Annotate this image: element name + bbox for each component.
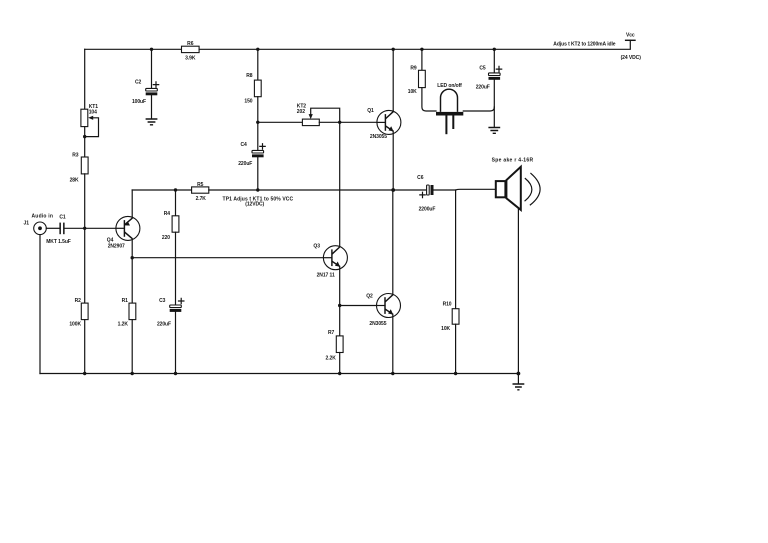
capacitor C4 bbox=[238, 142, 265, 167]
ground under C5 bbox=[488, 128, 500, 134]
wire C1 to Q4 base bbox=[65, 227, 125, 229]
svg-text:Q1: Q1 bbox=[367, 108, 374, 114]
wire R1 to rail bbox=[131, 320, 133, 374]
wire Q2 emitter drop bbox=[392, 314, 394, 373]
svg-text:104: 104 bbox=[89, 109, 97, 115]
transistor Q4 bbox=[107, 216, 140, 249]
svg-text:Q2: Q2 bbox=[366, 293, 373, 299]
svg-text:220uF: 220uF bbox=[238, 161, 252, 167]
svg-text:C3: C3 bbox=[159, 298, 166, 304]
wire Q4 emitter riser bbox=[131, 190, 133, 218]
resistor R9 bbox=[408, 65, 426, 95]
transistor Q2 bbox=[366, 293, 400, 327]
svg-text:2200uF: 2200uF bbox=[419, 206, 436, 212]
connector J1 audio in bbox=[24, 214, 54, 235]
wire left rail bottom bbox=[84, 320, 86, 374]
node Q1 collector junction bbox=[392, 48, 395, 51]
node rail C3 bbox=[174, 372, 177, 375]
wire C3 to rail bbox=[175, 312, 177, 374]
wire R10 to rail bbox=[455, 324, 457, 373]
svg-text:10K: 10K bbox=[441, 326, 450, 332]
resistor R5 bbox=[192, 182, 209, 202]
resistor R7 bbox=[326, 330, 344, 362]
node C2 top junction bbox=[150, 48, 153, 51]
capacitor C2 bbox=[132, 79, 159, 104]
svg-text:R10: R10 bbox=[443, 302, 452, 308]
svg-text:R8: R8 bbox=[246, 73, 253, 79]
resistor R3 bbox=[70, 153, 89, 184]
capacitor C3 bbox=[157, 298, 184, 327]
node R9 top junction bbox=[420, 48, 423, 51]
svg-text:R1: R1 bbox=[122, 298, 129, 304]
node rail R1 bbox=[131, 372, 134, 375]
node R8 C4 KT2 junction bbox=[256, 121, 259, 124]
svg-text:202: 202 bbox=[297, 109, 305, 115]
svg-text:2N3055: 2N3055 bbox=[369, 321, 386, 327]
svg-text:R5: R5 bbox=[197, 182, 204, 188]
svg-text:Spe ake r 4-16R: Spe ake r 4-16R bbox=[492, 158, 534, 164]
resistor R6 bbox=[182, 41, 200, 61]
svg-text:C2: C2 bbox=[135, 79, 142, 85]
wire output line y190 bbox=[132, 189, 191, 191]
wire speaker return bbox=[517, 209, 519, 373]
wire R7 to rail bbox=[339, 353, 341, 374]
wire Q4 to Q3 base bbox=[132, 257, 332, 259]
wire R9 to LED bbox=[422, 88, 436, 111]
resistor R1 bbox=[118, 298, 136, 327]
svg-text:2N2907: 2N2907 bbox=[108, 244, 125, 250]
node Q3 emitter junction bbox=[338, 304, 341, 307]
svg-text:Vcc: Vcc bbox=[626, 32, 635, 38]
trimpot KT2 bbox=[297, 104, 340, 126]
capacitor C5 bbox=[476, 65, 502, 90]
capacitor C6 bbox=[417, 175, 435, 213]
svg-text:220uF: 220uF bbox=[476, 85, 490, 91]
wire R8 branch bbox=[257, 49, 259, 80]
LED on/off bbox=[436, 83, 463, 134]
speaker SP1 bbox=[492, 158, 540, 210]
svg-text:1.2K: 1.2K bbox=[118, 321, 129, 327]
wire C4 to output line bbox=[257, 157, 259, 190]
svg-text:2.2K: 2.2K bbox=[326, 356, 337, 362]
svg-text:Q4: Q4 bbox=[107, 237, 114, 243]
Vcc power symbol bbox=[621, 32, 642, 61]
svg-text:(24 VDC): (24 VDC) bbox=[621, 55, 642, 61]
svg-text:Audio in: Audio in bbox=[32, 214, 54, 220]
svg-text:R6: R6 bbox=[187, 41, 194, 47]
wire J1 ground drop bbox=[39, 235, 41, 374]
node output junction bbox=[391, 188, 395, 192]
svg-text:R4: R4 bbox=[164, 211, 171, 217]
wire J1 to C1 bbox=[46, 227, 59, 229]
resistor R4 bbox=[162, 211, 179, 241]
svg-text:(12VDC): (12VDC) bbox=[245, 202, 264, 208]
svg-text:10K: 10K bbox=[408, 89, 417, 95]
svg-text:100K: 100K bbox=[69, 321, 81, 327]
wire KT2 to Q1 base bbox=[319, 121, 385, 123]
wire top rail left segment bbox=[85, 48, 182, 50]
wire mid bias line bbox=[258, 121, 303, 123]
svg-text:J1: J1 bbox=[24, 220, 30, 226]
wire bottom rail bbox=[40, 373, 518, 375]
ground main bbox=[513, 384, 525, 390]
ground under C2 bbox=[146, 119, 158, 125]
wire top rail right segment bbox=[199, 40, 630, 49]
node Q4 collector junction bbox=[131, 256, 134, 259]
wire Q1 collector bbox=[392, 49, 394, 111]
wire R4 branch bbox=[175, 190, 177, 216]
svg-text:2N3055: 2N3055 bbox=[370, 134, 387, 140]
wire C5 to ground bbox=[493, 80, 495, 128]
wire C5 branch bbox=[493, 49, 495, 73]
svg-text:C6: C6 bbox=[417, 175, 424, 181]
node C4 bottom junction bbox=[256, 188, 259, 191]
wire Q2 collector riser bbox=[392, 190, 394, 295]
wire Q3 collector riser bbox=[339, 122, 341, 246]
wire LED to ground column bbox=[463, 107, 494, 111]
node rail R7 bbox=[338, 372, 341, 375]
svg-text:R3: R3 bbox=[72, 153, 79, 159]
svg-text:R7: R7 bbox=[328, 330, 335, 336]
wire C2 to ground bbox=[151, 95, 153, 118]
wire node to R1 bbox=[131, 258, 133, 303]
resistor R2 bbox=[69, 298, 88, 327]
wire left rail top bbox=[84, 49, 86, 109]
wire C2 branch bbox=[151, 49, 153, 88]
wire C6 to speaker bbox=[434, 188, 495, 191]
wire R4 to C3 bbox=[175, 232, 177, 305]
annotation TP1 bbox=[223, 196, 294, 207]
wire R9 branch bbox=[421, 49, 423, 70]
wire R8 to mid node bbox=[257, 97, 259, 123]
node KT1 wiper junction bbox=[83, 135, 86, 138]
node rail R10 bbox=[454, 372, 457, 375]
wire output line to C6 bbox=[209, 189, 427, 191]
node R8 top junction bbox=[256, 48, 259, 51]
svg-text:C5: C5 bbox=[479, 65, 486, 71]
transistor Q1 bbox=[367, 108, 401, 140]
node rail ground bbox=[517, 372, 521, 376]
wire R10 drop bbox=[455, 190, 457, 309]
node input junction bbox=[83, 227, 86, 230]
svg-text:R2: R2 bbox=[75, 298, 82, 304]
svg-text:C1: C1 bbox=[59, 215, 66, 221]
capacitor C1 bbox=[46, 215, 71, 245]
svg-text:3.9K: 3.9K bbox=[185, 56, 196, 62]
wire node to R7 bbox=[339, 306, 341, 336]
svg-text:2.7K: 2.7K bbox=[196, 196, 207, 202]
wire left rail mid1 bbox=[84, 127, 86, 157]
wire Q3 emitter drop bbox=[339, 266, 341, 305]
svg-text:Adjus t KT2 to 1200mA idle: Adjus t KT2 to 1200mA idle bbox=[553, 41, 615, 47]
node C5 top junction bbox=[493, 48, 496, 51]
svg-text:LED on/off: LED on/off bbox=[437, 83, 462, 89]
node R4 junction bbox=[174, 188, 177, 191]
transistor Q3 bbox=[313, 244, 347, 279]
node rail Q2 bbox=[391, 372, 394, 375]
svg-text:C4: C4 bbox=[240, 142, 247, 148]
svg-text:Q3: Q3 bbox=[313, 244, 320, 250]
wire Q1 emitter bbox=[392, 131, 394, 190]
node KT2 wiper junction bbox=[338, 121, 341, 124]
node rail R2 bbox=[83, 372, 86, 375]
svg-text:220: 220 bbox=[162, 235, 170, 241]
svg-text:220uF: 220uF bbox=[157, 321, 171, 327]
svg-text:MKT 1.5uF: MKT 1.5uF bbox=[46, 239, 71, 245]
wire left rail mid2 bbox=[84, 174, 86, 303]
wire ground stem bbox=[517, 374, 519, 384]
svg-text:150: 150 bbox=[244, 98, 252, 104]
wire node to C4 bbox=[257, 122, 259, 150]
svg-text:100uF: 100uF bbox=[132, 99, 146, 105]
wire Q4 collector drop bbox=[131, 239, 133, 258]
resistor R10 bbox=[441, 302, 459, 332]
trimpot KT1 bbox=[81, 104, 99, 137]
svg-text:28K: 28K bbox=[70, 178, 79, 184]
svg-text:R9: R9 bbox=[410, 65, 417, 71]
wire Q3 to Q2 base bbox=[340, 305, 385, 307]
svg-text:2N17 11: 2N17 11 bbox=[317, 272, 335, 278]
resistor R8 bbox=[244, 73, 261, 104]
